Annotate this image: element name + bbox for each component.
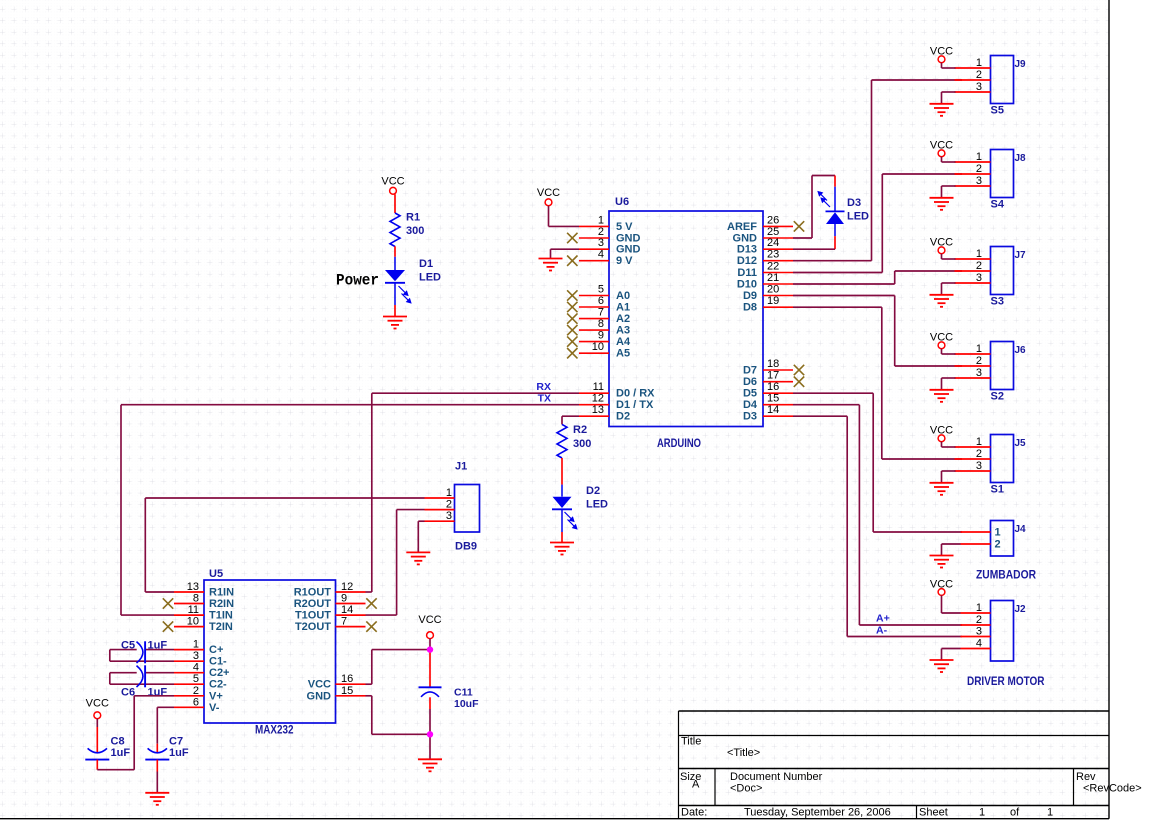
svg-text:19: 19 [767, 295, 779, 307]
svg-text:A3: A3 [616, 325, 630, 337]
svg-text:1: 1 [1047, 807, 1053, 819]
svg-text:VCC: VCC [537, 187, 560, 199]
svg-text:D1 / TX: D1 / TX [616, 399, 654, 411]
svg-text:A2: A2 [616, 313, 630, 325]
svg-text:J4: J4 [1015, 524, 1027, 535]
svg-text:5 V: 5 V [616, 221, 633, 233]
svg-text:C1-: C1- [209, 656, 227, 668]
svg-text:1: 1 [995, 527, 1001, 539]
svg-text:10uF: 10uF [454, 698, 479, 710]
svg-text:J2: J2 [1015, 604, 1027, 615]
svg-text:15: 15 [767, 393, 779, 405]
svg-text:7: 7 [598, 307, 604, 319]
svg-text:S2: S2 [991, 391, 1004, 403]
svg-text:1: 1 [446, 487, 452, 499]
svg-text:<Title>: <Title> [727, 747, 760, 759]
svg-text:9 V: 9 V [616, 255, 633, 267]
svg-text:3: 3 [446, 510, 452, 522]
svg-text:13: 13 [187, 581, 199, 593]
svg-text:1: 1 [193, 639, 199, 651]
svg-text:GND: GND [307, 690, 332, 702]
svg-text:D2: D2 [586, 485, 600, 497]
svg-text:10: 10 [592, 341, 604, 353]
svg-text:1: 1 [976, 343, 982, 355]
svg-text:GND: GND [616, 233, 641, 245]
svg-text:5: 5 [598, 284, 604, 296]
svg-text:LED: LED [586, 499, 608, 511]
svg-text:S1: S1 [991, 484, 1004, 496]
svg-text:Tuesday, September 26, 2006: Tuesday, September 26, 2006 [744, 807, 891, 819]
svg-text:Rev: Rev [1076, 771, 1096, 783]
svg-text:14: 14 [767, 404, 779, 416]
svg-text:D3: D3 [847, 197, 861, 209]
svg-text:C7: C7 [169, 736, 183, 748]
svg-text:1: 1 [976, 57, 982, 69]
svg-text:18: 18 [767, 358, 779, 370]
svg-text:VCC: VCC [418, 614, 441, 626]
svg-text:V+: V+ [209, 690, 223, 702]
svg-text:Document Number: Document Number [730, 771, 823, 783]
svg-text:7: 7 [341, 616, 347, 628]
svg-text:300: 300 [406, 225, 424, 237]
svg-text:24: 24 [767, 237, 779, 249]
svg-text:J6: J6 [1015, 345, 1027, 356]
svg-text:Sheet: Sheet [919, 807, 948, 819]
svg-text:3: 3 [976, 175, 982, 187]
svg-text:C2-: C2- [209, 679, 227, 691]
svg-text:4: 4 [976, 638, 982, 650]
svg-text:J9: J9 [1015, 59, 1027, 70]
svg-text:C+: C+ [209, 644, 223, 656]
svg-text:10: 10 [187, 616, 199, 628]
svg-text:14: 14 [341, 604, 353, 616]
svg-text:1uF: 1uF [148, 687, 168, 699]
svg-text:D12: D12 [737, 255, 757, 267]
svg-text:<RevCode>: <RevCode> [1083, 783, 1142, 795]
svg-text:Title: Title [681, 736, 701, 748]
svg-text:T2OUT: T2OUT [295, 621, 331, 633]
svg-text:AREF: AREF [727, 221, 757, 233]
svg-text:1: 1 [979, 807, 985, 819]
svg-text:A: A [692, 779, 700, 791]
svg-text:TX: TX [538, 392, 551, 404]
svg-text:D2: D2 [616, 411, 630, 423]
svg-text:D5: D5 [743, 388, 757, 400]
svg-text:C8: C8 [111, 736, 125, 748]
svg-text:4: 4 [193, 662, 199, 674]
svg-text:D7: D7 [743, 365, 757, 377]
svg-text:R1: R1 [406, 212, 420, 224]
svg-text:R2: R2 [573, 424, 587, 436]
svg-text:1: 1 [976, 248, 982, 260]
svg-text:C5: C5 [121, 640, 135, 652]
svg-text:15: 15 [341, 685, 353, 697]
svg-text:2: 2 [976, 614, 982, 626]
svg-text:VCC: VCC [308, 679, 331, 691]
svg-text:DRIVER MOTOR: DRIVER MOTOR [967, 676, 1045, 688]
svg-text:2: 2 [976, 355, 982, 367]
svg-text:3: 3 [976, 272, 982, 284]
svg-text:1uF: 1uF [169, 747, 189, 759]
svg-text:D10: D10 [737, 279, 757, 291]
svg-text:GND: GND [616, 244, 641, 256]
svg-text:16: 16 [767, 381, 779, 393]
svg-text:13: 13 [592, 404, 604, 416]
svg-text:3: 3 [976, 81, 982, 93]
svg-text:DB9: DB9 [455, 541, 477, 553]
svg-text:2: 2 [976, 163, 982, 175]
svg-text:S5: S5 [991, 105, 1004, 117]
svg-text:LED: LED [847, 211, 869, 223]
svg-text:9: 9 [598, 330, 604, 342]
svg-text:R1OUT: R1OUT [294, 587, 332, 599]
svg-text:J1: J1 [455, 461, 467, 473]
svg-text:22: 22 [767, 261, 779, 273]
svg-text:J7: J7 [1015, 250, 1027, 261]
svg-text:9: 9 [341, 593, 347, 605]
svg-text:23: 23 [767, 249, 779, 261]
svg-text:2: 2 [995, 539, 1001, 551]
svg-text:1: 1 [976, 151, 982, 163]
svg-text:2: 2 [976, 69, 982, 81]
svg-text:U5: U5 [209, 568, 223, 580]
svg-text:5: 5 [193, 673, 199, 685]
svg-text:S4: S4 [991, 199, 1005, 211]
svg-text:8: 8 [193, 593, 199, 605]
svg-text:VCC: VCC [381, 176, 404, 188]
svg-text:D3: D3 [743, 411, 757, 423]
svg-text:3: 3 [976, 626, 982, 638]
svg-text:D1: D1 [419, 258, 433, 270]
svg-text:Power: Power [336, 272, 379, 290]
svg-text:12: 12 [341, 581, 353, 593]
svg-text:D13: D13 [737, 244, 757, 256]
svg-text:D4: D4 [743, 399, 758, 411]
svg-text:T2IN: T2IN [209, 621, 233, 633]
svg-text:1: 1 [976, 602, 982, 614]
svg-text:3: 3 [193, 650, 199, 662]
svg-text:20: 20 [767, 284, 779, 296]
svg-text:J5: J5 [1015, 438, 1027, 449]
svg-text:ZUMBADOR: ZUMBADOR [976, 570, 1037, 582]
svg-text:A4: A4 [616, 336, 631, 348]
svg-text:21: 21 [767, 272, 779, 284]
svg-text:2: 2 [976, 260, 982, 272]
svg-text:1uF: 1uF [148, 640, 168, 652]
svg-text:2: 2 [598, 226, 604, 238]
svg-text:R1IN: R1IN [209, 587, 234, 599]
svg-text:C11: C11 [454, 687, 473, 699]
svg-text:300: 300 [573, 438, 591, 450]
svg-text:12: 12 [592, 393, 604, 405]
svg-text:T1OUT: T1OUT [295, 610, 331, 622]
svg-text:J8: J8 [1015, 153, 1027, 164]
svg-text:17: 17 [767, 370, 779, 382]
svg-text:GND: GND [733, 233, 758, 245]
svg-text:6: 6 [193, 696, 199, 708]
svg-text:11: 11 [593, 381, 604, 393]
svg-text:2: 2 [193, 685, 199, 697]
svg-text:MAX232: MAX232 [255, 725, 294, 737]
svg-text:D6: D6 [743, 376, 757, 388]
svg-text:1: 1 [598, 214, 604, 226]
svg-text:T1IN: T1IN [209, 610, 233, 622]
svg-text:3: 3 [598, 237, 604, 249]
svg-text:25: 25 [767, 226, 779, 238]
svg-text:RX: RX [536, 381, 551, 393]
svg-text:D8: D8 [743, 302, 757, 314]
svg-text:ARDUINO: ARDUINO [657, 438, 701, 450]
svg-text:of: of [1010, 807, 1020, 819]
svg-text:11: 11 [188, 604, 199, 616]
svg-text:1uF: 1uF [111, 747, 131, 759]
svg-text:R2IN: R2IN [209, 598, 234, 610]
svg-text:4: 4 [598, 249, 604, 261]
svg-text:2: 2 [446, 499, 452, 511]
svg-text:D9: D9 [743, 290, 757, 302]
svg-text:1: 1 [976, 436, 982, 448]
svg-text:LED: LED [419, 272, 441, 284]
svg-text:A0: A0 [616, 290, 630, 302]
svg-text:A5: A5 [616, 348, 630, 360]
svg-text:D0 / RX: D0 / RX [616, 388, 655, 400]
svg-text:Date:: Date: [681, 807, 707, 819]
svg-text:3: 3 [976, 460, 982, 472]
svg-text:6: 6 [598, 295, 604, 307]
svg-text:R2OUT: R2OUT [294, 598, 332, 610]
svg-text:8: 8 [598, 318, 604, 330]
svg-text:16: 16 [341, 673, 353, 685]
svg-text:V-: V- [209, 702, 220, 714]
svg-text:2: 2 [976, 448, 982, 460]
svg-text:26: 26 [767, 214, 779, 226]
svg-text:S3: S3 [991, 296, 1004, 308]
svg-text:C6: C6 [121, 687, 135, 699]
svg-text:A1: A1 [616, 302, 630, 314]
svg-text:D11: D11 [737, 267, 757, 279]
svg-text:A+: A+ [876, 613, 890, 625]
svg-text:A-: A- [876, 625, 888, 637]
svg-text:3: 3 [976, 367, 982, 379]
svg-text:U6: U6 [615, 196, 629, 208]
svg-text:C2+: C2+ [209, 667, 230, 679]
svg-text:VCC: VCC [86, 698, 109, 710]
svg-text:<Doc>: <Doc> [730, 783, 762, 795]
